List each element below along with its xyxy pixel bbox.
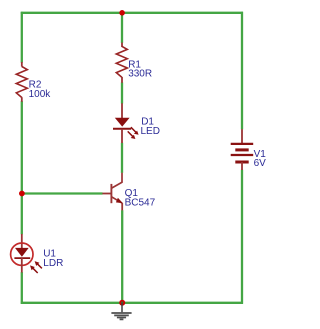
svg-text:LDR: LDR	[43, 258, 63, 269]
wire left rail middle	[21, 101, 23, 234]
wire LED to Q1 collector	[121, 143, 123, 173]
wire right rail upper	[241, 12, 243, 130]
wire left rail upper	[21, 12, 23, 63]
svg-text:BC547: BC547	[125, 197, 156, 208]
node junction top	[119, 10, 125, 16]
wire bottom rail	[21, 302, 243, 304]
svg-text:6V: 6V	[254, 158, 267, 169]
wire right rail lower	[241, 170, 243, 304]
LED D1	[113, 103, 160, 143]
wire base (node to Q1)	[22, 192, 103, 194]
ground	[111, 303, 131, 320]
resistor R1	[116, 43, 152, 83]
wire left rail lower	[21, 272, 23, 304]
wire Q1 emitter to bottom rail	[121, 210, 123, 304]
node junction bottom	[119, 300, 125, 306]
LDR U1	[11, 234, 64, 273]
wire middle branch top	[121, 12, 123, 43]
resistor R2	[16, 62, 51, 102]
svg-text:100k: 100k	[29, 89, 52, 100]
wire top rail	[21, 12, 243, 14]
svg-text:330R: 330R	[128, 68, 152, 79]
transistor Q1	[111, 173, 155, 211]
svg-text:LED: LED	[141, 126, 160, 137]
wire Q1 base pin	[102, 193, 111, 195]
node junction left	[19, 191, 25, 197]
wire R1 to LED	[121, 83, 123, 104]
battery V1	[231, 129, 267, 170]
